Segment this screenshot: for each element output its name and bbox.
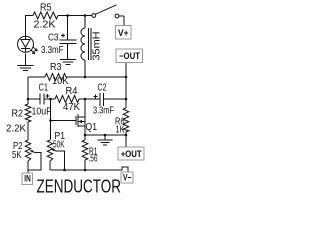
- svg-text:3.3mF: 3.3mF: [93, 106, 114, 117]
- svg-text:Q1: Q1: [86, 122, 98, 133]
- junction: left rail / C1: [27, 98, 30, 101]
- junction: y135 ground tap: [104, 134, 107, 137]
- svg-text:V−: V−: [123, 173, 132, 183]
- wire: LED cathode to ground: [25, 54, 27, 66]
- svg-text:V+: V+: [118, 28, 129, 38]
- wire: R3 to -OUT node: [66, 76, 126, 78]
- wire: top-left corner LED anode to R5: [26, 16, 34, 37]
- svg-text:R5: R5: [40, 3, 52, 14]
- svg-text:IN: IN: [24, 174, 31, 184]
- capacitor C1 10uF: [28, 94, 51, 105]
- resistor R2: [25, 104, 31, 122]
- svg-text:R4: R4: [66, 86, 78, 97]
- junction: drain node (R4/C2/L1/Q1): [84, 98, 87, 101]
- junction: top rail / L1: [84, 14, 87, 17]
- svg-text:C2: C2: [98, 83, 107, 94]
- LED: [18, 36, 38, 53]
- svg-text:3.3mF: 3.3mF: [41, 45, 64, 56]
- wire: switch to V+ terminal: [123, 16, 125, 26]
- svg-text:50K: 50K: [53, 140, 65, 151]
- svg-text:+OUT: +OUT: [121, 149, 142, 159]
- wire: node row y77 (R3 left corner down left rail): [28, 76, 45, 78]
- terminal V-: [121, 172, 133, 183]
- junction: top rail / C3: [66, 14, 69, 17]
- terminal -OUT: [116, 49, 143, 63]
- svg-text:.56: .56: [89, 154, 98, 165]
- junction: y77 / -OUT column: [125, 76, 128, 79]
- svg-text:R3: R3: [50, 62, 62, 73]
- junction: C2 / -OUT column: [125, 98, 128, 101]
- wire: R5 to switch: [58, 15, 92, 17]
- wire: gate column x50.5: [50, 99, 52, 140]
- MOSFET Q1: [51, 114, 86, 127]
- capacitor C2 3.3mF: [85, 93, 126, 106]
- svg-text:5K: 5K: [12, 150, 22, 161]
- ground (mid, y135 rail): [98, 135, 113, 145]
- wire: C3 to top rail: [67, 16, 69, 41]
- ground (LED): [18, 66, 34, 71]
- junction: gate tap: [49, 119, 52, 122]
- resistor R3: [45, 74, 66, 81]
- wire: C3 to ground: [67, 44, 69, 60]
- junction: bottom rail / R1: [84, 169, 87, 172]
- resistor R4: [51, 96, 86, 103]
- svg-text:−OUT: −OUT: [119, 51, 140, 61]
- resistor R6: [123, 99, 129, 135]
- resistor R1: [82, 135, 88, 170]
- wire: source row y135: [85, 134, 126, 136]
- svg-text:2.2K: 2.2K: [34, 20, 56, 31]
- svg-text:1K: 1K: [116, 125, 125, 136]
- junction: y135 / R6 bottom: [125, 134, 128, 137]
- switch S1: [92, 5, 124, 18]
- terminal V+: [116, 26, 132, 40]
- wire: drain/source column x85: [84, 99, 86, 135]
- resistor R5: [33, 12, 58, 19]
- wire: R2 to P2: [27, 122, 29, 140]
- wire: -OUT column x126: [125, 63, 127, 100]
- capacitor C3 3.3mF: [60, 34, 77, 44]
- svg-text:C3: C3: [48, 33, 59, 44]
- terminal IN: [22, 173, 33, 185]
- potentiometer P1: [47, 140, 64, 170]
- wire: bottom rail y170: [51, 167, 129, 172]
- svg-text:35mH: 35mH: [92, 32, 103, 61]
- svg-text:R2: R2: [12, 109, 24, 120]
- svg-text:10uF: 10uF: [32, 107, 52, 118]
- svg-text:ZENDUCTOR: ZENDUCTOR: [37, 177, 122, 197]
- wire: left rail x28 down to R2: [27, 77, 29, 104]
- junction: C1/R4/gate column: [49, 98, 52, 101]
- svg-text:47K: 47K: [63, 102, 80, 113]
- junction: bottom rail / P1 wiper: [63, 169, 66, 172]
- junction: source/R1: [84, 134, 87, 137]
- svg-text:C1: C1: [39, 83, 49, 94]
- svg-text:2.2K: 2.2K: [6, 124, 26, 135]
- terminal +OUT: [118, 147, 144, 160]
- ground (C3): [60, 60, 76, 65]
- potentiometer P2: [25, 140, 41, 173]
- wire: R6 bottom to +OUT: [125, 135, 127, 147]
- inductor L1: [81, 16, 91, 78]
- junction: y77 / L1 drain column: [84, 76, 87, 79]
